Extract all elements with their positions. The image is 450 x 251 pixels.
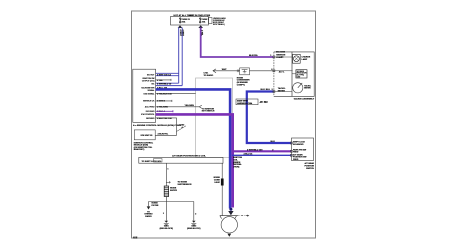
svg-text:2 WHT: 2 WHT xyxy=(182,30,184,37)
svg-text:A = ENGINE CONTROL MODULE (ECM: A = ENGINE CONTROL MODULE (ECM) CONN xyxy=(133,124,181,127)
svg-text:LAMP: LAMP xyxy=(302,58,308,61)
capacitor (condenser) xyxy=(221,179,224,186)
charge lamp xyxy=(293,54,301,63)
svg-text:ACC FEED: ACC FEED xyxy=(145,105,155,108)
svg-text:FILTER: FILTER xyxy=(152,205,159,207)
svg-text:698: 698 xyxy=(133,236,138,240)
junction dot above distributor xyxy=(229,208,232,211)
svg-text:4 WHT/BLU 10: 4 WHT/BLU 10 xyxy=(157,82,172,85)
wire labels at ECM rows xyxy=(157,73,172,120)
wire BLU thin to A/T gear box xyxy=(232,154,292,156)
svg-text:GAUGE ASSEMBLY: GAUGE ASSEMBLY xyxy=(294,97,315,100)
wire row7 to arrow xyxy=(156,106,200,108)
wire BLU tach signal (thick blue) ECM to distributor xyxy=(156,89,231,208)
svg-text:ALT L: ALT L xyxy=(279,71,285,74)
A/T gear position switch box xyxy=(292,138,314,161)
wire distributor right end to capacitor xyxy=(221,163,223,215)
dash-dot wire to spark plugs xyxy=(237,215,248,217)
wire BLK/YEL fuse F2 to gauge assembly xyxy=(201,28,274,58)
svg-text:4 BLK/YEL: 4 BLK/YEL xyxy=(158,133,169,136)
arrow below distributor xyxy=(227,234,231,237)
svg-text:BLU: BLU xyxy=(261,89,266,91)
ground G402 symbol xyxy=(192,221,196,223)
pin line 3 xyxy=(274,91,292,93)
svg-text:TO RADIO: TO RADIO xyxy=(204,74,214,77)
fuse box side tab xyxy=(209,18,213,24)
right leg ground G402 xyxy=(193,202,195,221)
svg-text:A/T GEAR POSITION SW & COIL: A/T GEAR POSITION SW & COIL xyxy=(172,155,206,158)
svg-text:METER: METER xyxy=(304,88,311,90)
svg-text:SOLENOID: SOLENOID xyxy=(293,144,304,146)
svg-text:IG1: IG1 xyxy=(151,83,154,85)
svg-text:SUPPRESSOR: SUPPRESSOR xyxy=(178,184,192,186)
svg-text:RADIO: RADIO xyxy=(145,215,152,218)
svg-text:(ENG BLOCK): (ENG BLOCK) xyxy=(160,228,174,230)
arrow to radio xyxy=(147,206,151,209)
distributor circle xyxy=(221,217,237,233)
ECM connector box xyxy=(133,69,156,122)
tachometer gauge xyxy=(293,83,303,93)
wire from distributor to noise suppressor xyxy=(165,163,167,186)
fuse box (under-dash fuse/relay box) xyxy=(171,17,209,26)
distributor long box xyxy=(139,157,223,163)
wire row2 stub xyxy=(156,79,171,81)
svg-text:0.5UF: 0.5UF xyxy=(214,182,220,184)
arrow into distributor xyxy=(228,211,233,215)
arrow to radio left xyxy=(213,69,216,73)
wire WHT (white core, blue edges) fuse F1 to ECM rows 1 and 3 xyxy=(156,28,183,86)
svg-text:SERVICE CK: SERVICE CK xyxy=(143,101,155,103)
svg-text:UNIT: UNIT xyxy=(297,77,301,79)
ground G401 symbol xyxy=(165,221,169,223)
svg-text:10A: 10A xyxy=(202,20,206,23)
wire below coil xyxy=(149,197,194,202)
svg-text:J/C 584: J/C 584 xyxy=(260,101,269,104)
svg-text:SWITCH: SWITCH xyxy=(306,168,314,170)
svg-text:IG2 FEED: IG2 FEED xyxy=(146,111,155,113)
wire WHT/BLU branch to A/T gear switch box xyxy=(233,150,292,152)
svg-text:ICM SIGNAL: ICM SIGNAL xyxy=(143,92,154,95)
wire row5 to shield box xyxy=(156,93,196,95)
svg-text:2 YEL: 2 YEL xyxy=(201,30,203,36)
svg-text:HARNESS C584: HARNESS C584 xyxy=(237,102,253,105)
svg-text:BLU: BLU xyxy=(271,141,276,143)
svg-text:HOT IN ON(II) ST(III): HOT IN ON(II) ST(III) xyxy=(190,15,211,17)
svg-text:KICK PANEL): KICK PANEL) xyxy=(213,23,225,26)
svg-text:COMPT): COMPT) xyxy=(237,84,245,86)
svg-text:FEED: FEED xyxy=(276,57,282,59)
pin squares gauge box xyxy=(273,56,275,93)
leader line to connector C102 xyxy=(177,126,187,132)
svg-text:(ENG BLOCK): (ENG BLOCK) xyxy=(187,228,201,230)
svg-text:FEED: FEED xyxy=(293,152,299,154)
left leg to radio xyxy=(148,202,150,207)
svg-text:50A: 50A xyxy=(182,20,186,23)
svg-text:YEL/GRN: YEL/GRN xyxy=(185,105,195,107)
voltage regulator box U2 xyxy=(296,70,307,78)
wire row9 to junction xyxy=(155,118,176,135)
ECM pin row labels xyxy=(141,74,155,120)
fuse box name text xyxy=(213,17,226,26)
svg-text:ICM UNIT 25: ICM UNIT 25 xyxy=(141,135,154,137)
connector ticks xyxy=(237,70,238,73)
pin squares A/T box xyxy=(290,142,292,156)
svg-text:4 BLU 31: 4 BLU 31 xyxy=(244,153,254,156)
svg-text:OUTPUT (IG1): OUTPUT (IG1) xyxy=(142,81,155,83)
gauge assembly box xyxy=(274,52,314,97)
svg-text:BRACKET): BRACKET) xyxy=(134,148,145,151)
pin line 2 xyxy=(274,70,293,72)
noise condenser box xyxy=(240,68,250,75)
arrow to ignition switch xyxy=(199,105,202,108)
svg-text:BLU: BLU xyxy=(266,89,271,91)
svg-text:METER: METER xyxy=(278,91,286,93)
shield box (gray enclosure) xyxy=(196,78,233,157)
svg-text:20A C560: 20A C560 xyxy=(276,51,286,54)
svg-text:4 YEL/BLK 100: 4 YEL/BLK 100 xyxy=(157,93,172,96)
connector arrow at fuse F1 output xyxy=(178,25,183,28)
svg-text:(IC TYPE): (IC TYPE) xyxy=(297,75,305,77)
svg-text:FEED: FEED xyxy=(293,159,299,161)
svg-text:KEY SWITCH: KEY SWITCH xyxy=(202,111,215,113)
wire BLU gauge tach to coil box (blue gamma) xyxy=(247,92,292,144)
noise condenser wire xyxy=(213,70,274,72)
gauge inner divider xyxy=(291,52,293,97)
wire row6 stub xyxy=(156,100,172,102)
distributor cap xyxy=(220,216,237,219)
fuse F1 xyxy=(180,18,181,23)
wire WHT/BLU ICM control (thick purple) ECM to distributor xyxy=(156,114,233,207)
svg-text:SUPPR: SUPPR xyxy=(170,190,177,192)
svg-text:4 WHT/BLU 100: 4 WHT/BLU 100 xyxy=(247,148,263,151)
ICM box xyxy=(134,130,155,140)
svg-text:ICM CONTROL: ICM CONTROL xyxy=(141,114,154,116)
border frame xyxy=(132,11,316,238)
noise suppressor coil xyxy=(164,186,168,197)
svg-text:GROUND: GROUND xyxy=(146,118,155,120)
branch arrow to suppressor text xyxy=(166,181,170,183)
pin line 1 xyxy=(274,56,293,58)
svg-text:4 WHT 100 C4: 4 WHT 100 C4 xyxy=(157,73,172,76)
center leg ground G401 xyxy=(165,202,167,221)
connector arrow at fuse F2 output xyxy=(198,25,203,28)
svg-text:4 WHT: 4 WHT xyxy=(179,30,182,37)
svg-text:SIGNAL: SIGNAL xyxy=(147,89,154,92)
svg-text:UTOR): UTOR) xyxy=(233,167,240,169)
svg-text:WHT: WHT xyxy=(222,69,227,71)
svg-text:BLK/YEL: BLK/YEL xyxy=(249,55,259,57)
fuse F2 xyxy=(200,18,201,23)
wire row7b stub xyxy=(156,110,173,112)
svg-text:IG1 HOT: IG1 HOT xyxy=(147,74,155,76)
connector box C584 on blue wire xyxy=(236,99,258,105)
